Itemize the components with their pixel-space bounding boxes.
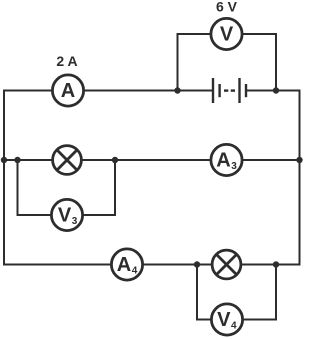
- battery B1: [213, 78, 246, 103]
- svg-text:4: 4: [132, 266, 138, 277]
- wire right vertical: [299, 91, 301, 265]
- ammeter A: [52, 75, 83, 106]
- ammeter A4: [111, 249, 142, 280]
- svg-text:2 A: 2 A: [56, 53, 77, 69]
- wire V3 branch left vertical: [17, 160, 19, 216]
- wire voltmeter branch left vertical: [177, 33, 179, 91]
- wire voltmeter branch right vertical: [275, 33, 277, 91]
- ammeter A3: [211, 144, 242, 175]
- svg-text:V: V: [220, 24, 234, 46]
- node V4 branch right: [273, 261, 279, 267]
- voltmeter V3: [51, 199, 82, 230]
- wire V3 branch right vertical: [114, 160, 116, 216]
- svg-text:6 V: 6 V: [216, 0, 238, 15]
- node battery left junction: [174, 87, 180, 93]
- node V3 branch right: [112, 157, 118, 163]
- node middle row right: [296, 157, 302, 163]
- voltmeter V4: [211, 304, 242, 335]
- svg-text:V: V: [58, 205, 72, 227]
- node V3 branch left: [14, 157, 20, 163]
- wire left vertical: [3, 91, 5, 265]
- svg-text:V: V: [217, 309, 231, 331]
- wire voltmeter branch top: [177, 33, 278, 35]
- wire V4 branch right vertical: [275, 265, 277, 321]
- node battery right junction: [273, 87, 279, 93]
- lamp L2: [212, 250, 241, 279]
- wire V4 branch left vertical: [196, 265, 198, 321]
- wire top row left segment: [3, 90, 213, 92]
- voltmeter V: [211, 18, 242, 49]
- svg-text:A: A: [117, 254, 131, 276]
- wire V4 branch bottom: [196, 319, 277, 321]
- svg-text:A: A: [61, 80, 75, 102]
- svg-text:A: A: [216, 150, 230, 172]
- wire bottom row: [3, 264, 301, 266]
- node middle row left: [1, 157, 7, 163]
- svg-text:4: 4: [231, 321, 237, 332]
- wire V3 branch bottom: [17, 214, 117, 216]
- svg-text:3: 3: [231, 161, 237, 172]
- node V4 branch left: [194, 261, 200, 267]
- svg-text:3: 3: [72, 216, 78, 227]
- wire middle row: [3, 159, 301, 161]
- lamp L1: [53, 146, 82, 175]
- wire top row right segment: [246, 90, 301, 92]
